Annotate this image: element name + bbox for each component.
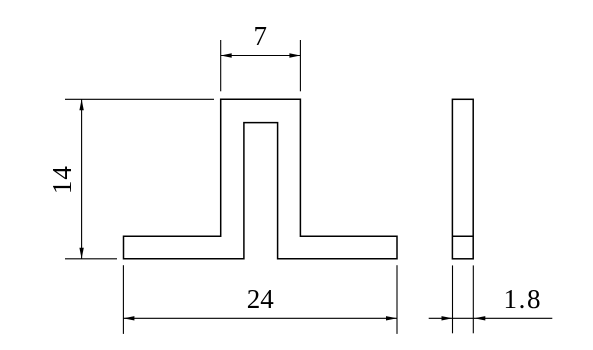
svg-text:1.8: 1.8 (504, 284, 543, 314)
svg-text:24: 24 (247, 284, 275, 314)
svg-text:7: 7 (254, 21, 268, 51)
svg-text:14: 14 (47, 165, 77, 194)
